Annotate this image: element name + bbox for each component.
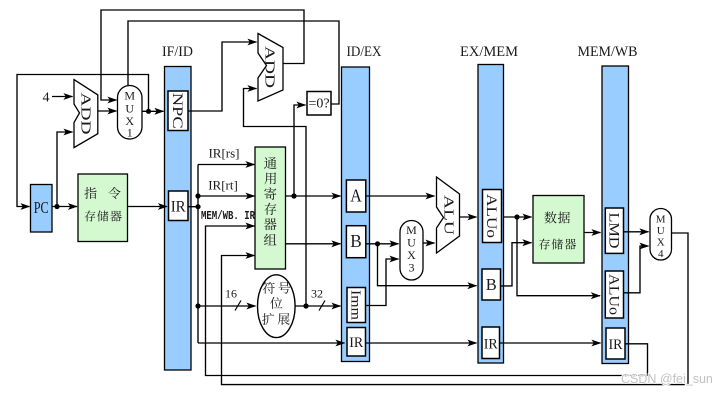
svg-text:ALUo: ALUo xyxy=(483,194,499,238)
wire ALU to EX/MEM ALUo xyxy=(460,216,477,218)
svg-text:EX/MEM: EX/MEM xyxy=(460,44,518,60)
instruction memory 指令存储器 xyxy=(78,174,128,242)
latch IR (IF/ID) xyxy=(169,191,189,221)
junction IR[rt] branch xyxy=(195,193,200,198)
svg-text:IR: IR xyxy=(349,335,363,351)
svg-text:B: B xyxy=(486,275,497,294)
wire data memory to LMD xyxy=(584,232,601,234)
wire zero flag to MUX1 select xyxy=(128,21,339,104)
wire PC loopback xyxy=(17,75,149,207)
svg-text:32: 32 xyxy=(311,287,323,301)
svg-text:ADD: ADD xyxy=(262,46,277,88)
alu ALU xyxy=(437,177,460,253)
wire ADD1 output to MUX1 xyxy=(98,110,117,112)
svg-text:NPC: NPC xyxy=(169,93,185,129)
svg-text:IR: IR xyxy=(609,337,623,353)
svg-text:Imm: Imm xyxy=(347,290,362,320)
wire EX/MEM B to data memory xyxy=(501,243,532,286)
wire LMD to MUX4 xyxy=(624,231,649,233)
register PC xyxy=(31,185,53,233)
wire 4 to ADD1 xyxy=(52,96,73,98)
latch IR (MEM/WB) xyxy=(606,328,625,359)
wire B to MUX3 xyxy=(366,243,399,245)
svg-text:IR: IR xyxy=(484,337,498,353)
wire register file B output xyxy=(286,243,341,245)
wire ALUo to data memory xyxy=(504,216,532,218)
wire A to zero test xyxy=(294,105,306,196)
wire IR output trunk xyxy=(188,206,198,208)
svg-text:B: B xyxy=(350,231,362,251)
wire PC output to instruction memory xyxy=(52,206,77,208)
svg-text:U: U xyxy=(657,225,665,237)
wire MEM/WB.IR writeback loop xyxy=(206,226,648,376)
latch Imm xyxy=(347,288,366,323)
svg-text:A: A xyxy=(350,186,362,206)
junction sign extend output xyxy=(303,303,308,308)
pipeline register IF/ID xyxy=(165,67,192,371)
wire ID/EX IR to EX/MEM IR xyxy=(366,342,477,344)
pipeline register ID/EX xyxy=(342,67,370,362)
wire MUX4 writeback loop xyxy=(222,233,689,385)
latch LMD xyxy=(605,208,623,253)
latch ALUo (EX/MEM) xyxy=(483,190,502,243)
junction sign extend branch xyxy=(195,303,200,308)
junction A output xyxy=(291,193,296,198)
zero test =0? xyxy=(307,92,331,116)
junction IR output xyxy=(195,204,200,209)
wire B to EX/MEM B xyxy=(378,244,477,286)
wire MEM/WB ALUo to MUX4 xyxy=(624,246,649,293)
wire sign extend to Imm xyxy=(295,305,340,307)
svg-text:M: M xyxy=(124,89,135,103)
svg-text:PC: PC xyxy=(34,198,49,217)
junction B output xyxy=(375,241,380,246)
svg-text:IF/ID: IF/ID xyxy=(162,44,193,60)
svg-text:X: X xyxy=(657,237,665,249)
svg-text:ALUo: ALUo xyxy=(605,274,621,315)
register file 通用寄存器组 xyxy=(255,147,286,269)
svg-text:LMD: LMD xyxy=(605,213,621,249)
wire NPC to ADD2 xyxy=(188,42,257,111)
svg-text:ID/EX: ID/EX xyxy=(347,44,382,60)
svg-text:ADD: ADD xyxy=(78,93,93,135)
pipeline register EX/MEM xyxy=(478,65,504,364)
latch NPC xyxy=(168,91,188,131)
wire MUX3 to ALU xyxy=(423,242,435,244)
svg-text:ALU: ALU xyxy=(441,195,456,235)
latch ALUo (MEM/WB) xyxy=(605,271,623,318)
svg-text:MEM/WB: MEM/WB xyxy=(578,44,638,60)
latch A xyxy=(346,180,365,212)
wire register file A output xyxy=(286,195,341,197)
svg-text:1: 1 xyxy=(127,126,133,140)
svg-text:IR: IR xyxy=(171,199,186,216)
sign extend 符号位扩展 xyxy=(258,275,296,338)
wire PC to ADD1 xyxy=(57,132,73,207)
wire branch target ADD2 output to MUX1 xyxy=(101,10,304,100)
junction MUX1 output xyxy=(146,109,151,114)
svg-text:MEM/WB. IR: MEM/WB. IR xyxy=(201,209,256,223)
wire MUX1 output to NPC xyxy=(142,110,164,112)
latch IR (EX/MEM) xyxy=(482,327,500,359)
junction PC output xyxy=(54,204,59,209)
svg-text:CSDN @fei_sun: CSDN @fei_sun xyxy=(621,372,713,386)
junction ALUo output xyxy=(514,214,519,219)
wire IR to sign extend xyxy=(198,305,256,307)
svg-text:IR[rt]: IR[rt] xyxy=(208,178,238,193)
svg-text:4: 4 xyxy=(43,91,50,106)
latch IR (ID/EX) xyxy=(347,328,366,357)
data memory 数据存储器 xyxy=(533,196,584,264)
svg-text:16: 16 xyxy=(225,287,237,301)
bus width mark 32 xyxy=(319,301,325,311)
mux MUX4 xyxy=(650,209,672,261)
wire EX/MEM IR to MEM/WB IR xyxy=(500,342,601,344)
svg-text:M: M xyxy=(656,214,666,226)
svg-text:3: 3 xyxy=(409,261,415,275)
latch B (EX/MEM) xyxy=(482,269,501,300)
wire ALUo to MEM/WB ALUo xyxy=(517,217,600,296)
adder ADD2 xyxy=(258,34,283,102)
adder ADD1 xyxy=(74,80,98,148)
wire Imm to MUX3 xyxy=(366,259,399,306)
mux MUX3 xyxy=(400,221,423,281)
wire IR[rt] to register file xyxy=(198,195,255,197)
wire IR[rs] to register file xyxy=(198,164,255,166)
wire immediate to ADD2 xyxy=(244,89,307,307)
mux MUX1 xyxy=(118,86,143,140)
wire A to ALU xyxy=(366,195,435,197)
wire IR to ID/EX IR xyxy=(198,342,345,344)
svg-text:4: 4 xyxy=(658,248,664,260)
wire instruction memory to IR xyxy=(128,206,168,208)
svg-text:=0?: =0? xyxy=(308,97,329,112)
bus width mark 16 xyxy=(235,301,241,311)
svg-text:IR[rs]: IR[rs] xyxy=(208,146,239,161)
latch B (ID/EX) xyxy=(346,226,365,258)
pipeline register MEM/WB xyxy=(602,66,629,364)
